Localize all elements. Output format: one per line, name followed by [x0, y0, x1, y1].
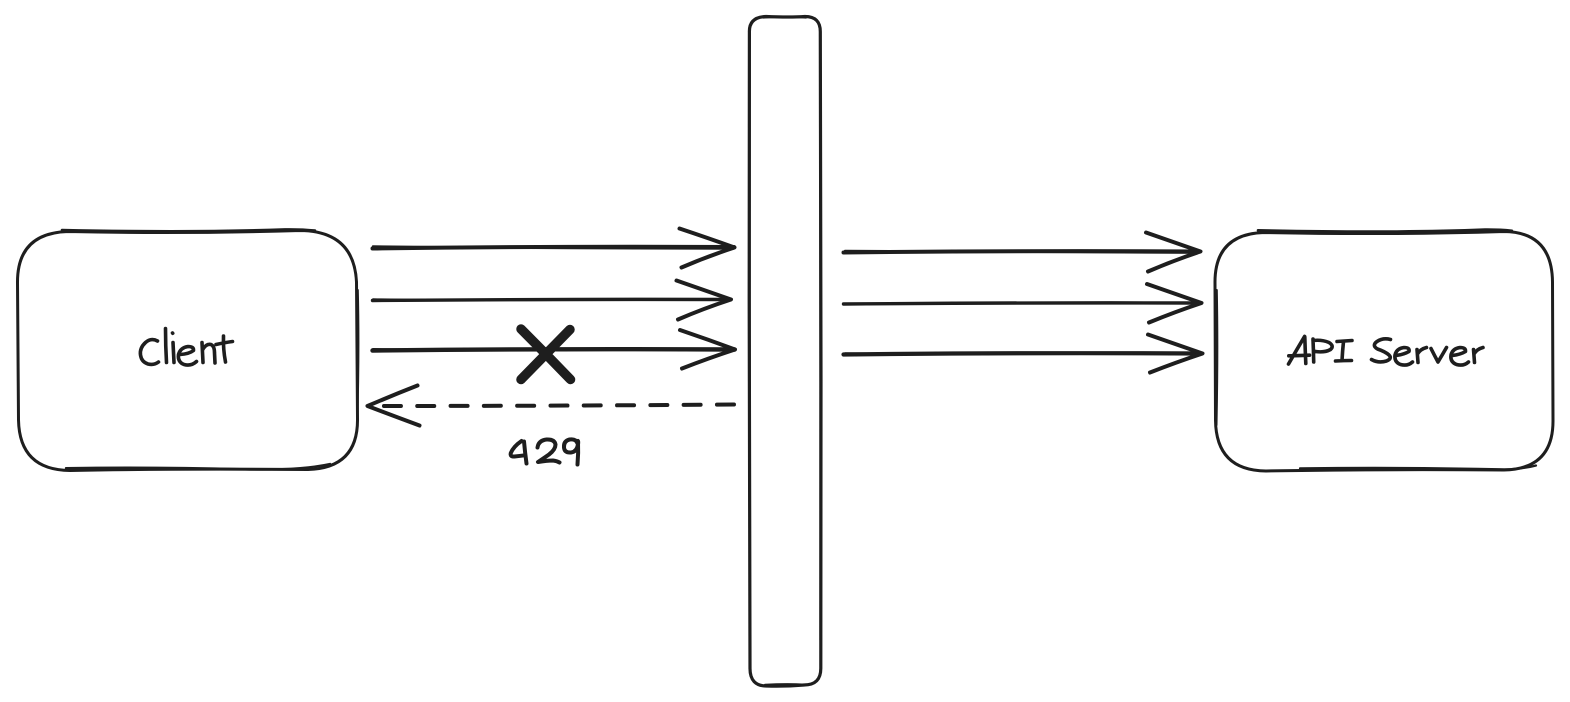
api server label "API Server": [1289, 336, 1484, 365]
dashed 429 response arrow head: [368, 386, 420, 426]
request arrow 2 shaft (client to limiter): [373, 299, 731, 300]
request arrow 2 head: [677, 281, 732, 320]
forwarded arrow 3 head: [1148, 335, 1203, 373]
rate limiter bar: [749, 17, 821, 687]
dashed 429 response arrow shaft (limiter back to client): [371, 405, 734, 407]
forwarded arrow 2 shaft (limiter to api server): [844, 303, 1201, 304]
forwarded arrow 1 head: [1146, 233, 1201, 272]
forwarded arrow 1 shaft (limiter to api server): [844, 251, 1200, 252]
request arrow 1 head: [680, 229, 735, 268]
request arrow 3 head: [680, 330, 735, 369]
forwarded arrow 3 shaft (limiter to api server): [844, 353, 1202, 354]
api server box: [1215, 230, 1553, 471]
request arrow 3 shaft (client to limiter, blocked): [373, 349, 735, 350]
label "429": [511, 439, 579, 464]
forwarded arrow 2 head: [1147, 284, 1202, 323]
X mark blocking request 3: [521, 329, 571, 380]
client box: [17, 229, 358, 470]
request arrow 1 shaft (client to limiter): [373, 247, 735, 249]
client label "Client": [140, 329, 232, 366]
